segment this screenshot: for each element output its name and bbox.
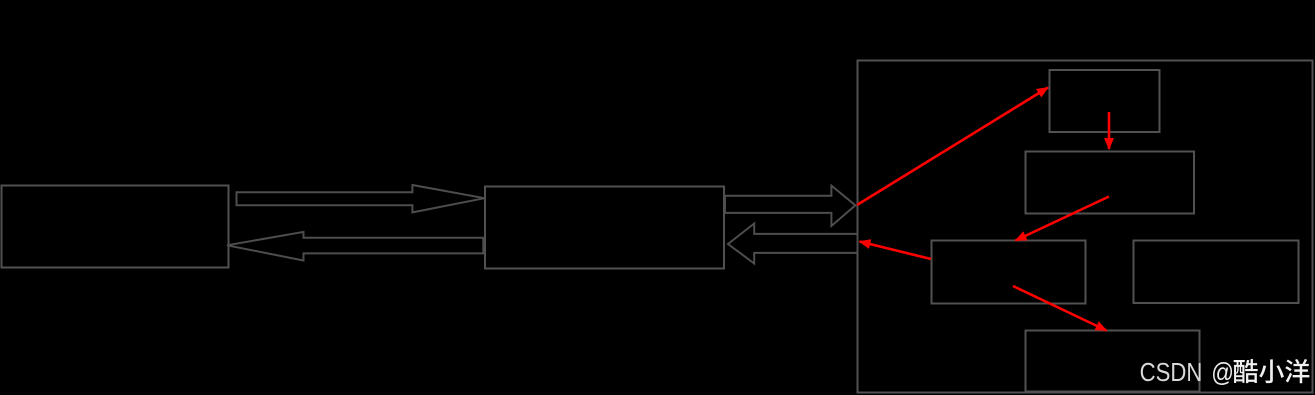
watermark char 洋 [1285,359,1309,383]
box bottom inner [1026,331,1200,392]
block arrow A3 right (middle box to container) [725,186,855,226]
box top inner [1050,70,1160,132]
red arrow R3 (second inner box to mid-left inner box) [1016,197,1110,241]
box client (left) [2,186,229,268]
box mid-right inner [1134,241,1299,304]
red arrow R5 (mid-left inner box to bottom inner box) [1013,286,1107,331]
block arrow A1 right (left box to middle box) [237,185,485,212]
svg-text:CSDN: CSDN [1140,358,1203,387]
box second inner [1026,152,1195,214]
container box (right group) [858,61,1313,393]
red arrow R1 (container edge to top inner box) [857,88,1048,206]
box mid-left inner [932,241,1086,304]
svg-text:@: @ [1211,358,1234,387]
box middle [485,187,724,269]
red arrow R4 (mid-left inner box to container edge) [860,242,932,260]
block arrow A4 left (container to middle box) [728,224,858,264]
watermark char 酷 [1234,359,1258,383]
red arrow R2 (top inner box down to second inner box) [1108,112,1111,149]
block arrow A2 left (middle box to left box) [227,232,483,261]
watermark char 小 [1259,359,1284,383]
